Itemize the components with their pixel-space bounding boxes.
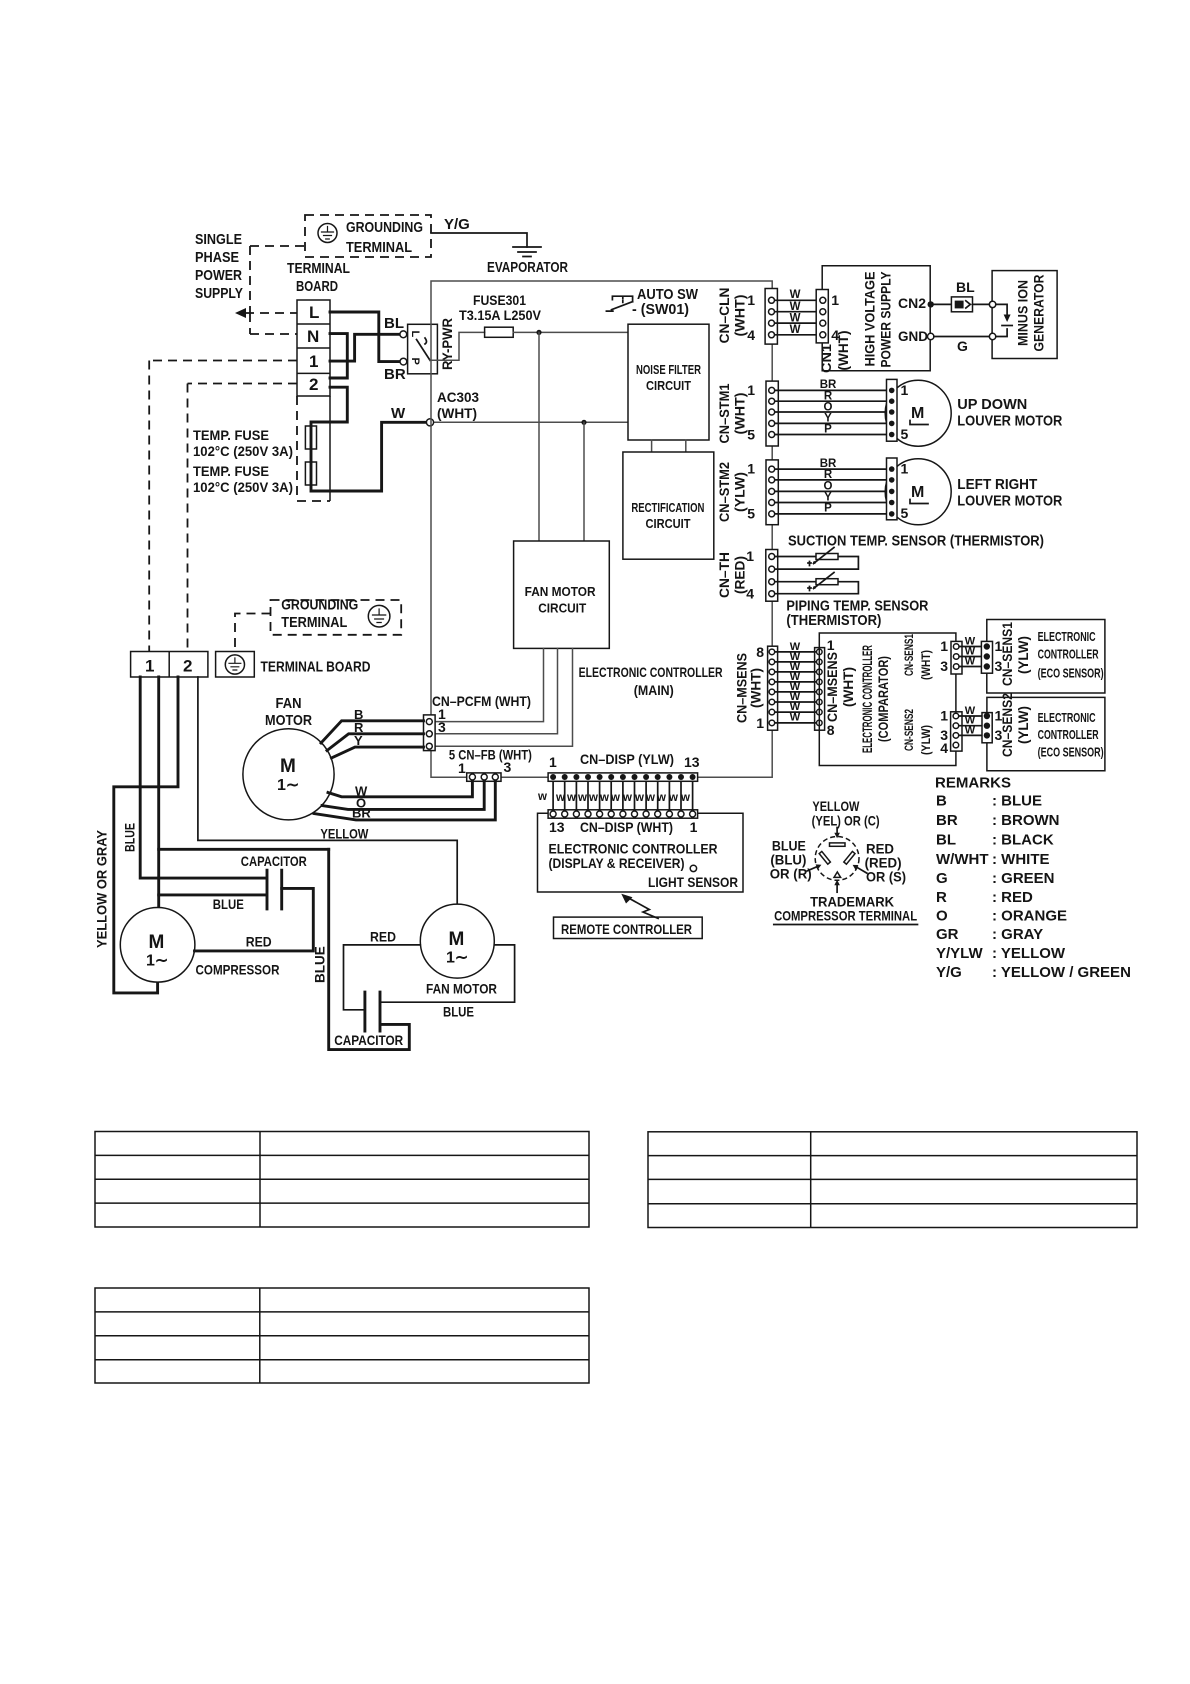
rectification circuit box	[623, 452, 714, 559]
svg-text:BLUE: BLUE	[313, 946, 328, 983]
svg-text:W: W	[391, 405, 406, 422]
svg-text:R: R	[936, 889, 947, 906]
svg-text:1: 1	[831, 292, 839, 308]
indoor fan motor	[243, 729, 334, 820]
wire W fan to CN-FB pin1	[328, 781, 472, 797]
svg-text:RECTIFICATION: RECTIFICATION	[631, 500, 704, 515]
svg-text:TEMP. FUSE: TEMP. FUSE	[193, 463, 269, 479]
svg-text:RED: RED	[246, 934, 272, 950]
svg-text:CN–PCFM (WHT): CN–PCFM (WHT)	[432, 693, 531, 709]
svg-text:GROUNDING: GROUNDING	[346, 219, 423, 236]
svg-text:1: 1	[747, 292, 755, 308]
svg-text:- (SW01): - (SW01)	[632, 301, 689, 318]
terminal R pin	[819, 851, 830, 864]
svg-text:GENERATOR: GENERATOR	[1032, 274, 1047, 351]
svg-text:CN–STM2: CN–STM2	[717, 462, 732, 522]
svg-text:w: w	[537, 791, 547, 803]
eco sensor controller box 1	[987, 620, 1105, 694]
svg-text:: WHITE: : WHITE	[992, 851, 1050, 868]
svg-text:MINUS ION: MINUS ION	[1016, 280, 1031, 346]
table 2	[648, 1132, 1137, 1228]
svg-text:w: w	[656, 792, 666, 804]
svg-text:w: w	[680, 792, 690, 804]
svg-text:(WHT): (WHT)	[841, 667, 856, 707]
svg-text:CN–MSENS: CN–MSENS	[825, 652, 840, 722]
wire 1b branch to outdoor fan blue	[159, 848, 329, 851]
svg-text:(WHT): (WHT)	[733, 295, 748, 337]
svg-text:OR (R): OR (R)	[770, 866, 812, 882]
svg-text:5: 5	[901, 426, 909, 442]
svg-text:5: 5	[747, 506, 755, 522]
dashed wire supply to grounding terminal	[250, 246, 305, 313]
wires fan motor circuit to CN-PCFM	[435, 648, 572, 746]
svg-text:: BLACK: : BLACK	[992, 832, 1054, 849]
wire 1 to relay BL	[330, 334, 400, 361]
CN-STM2 connector	[766, 460, 778, 525]
svg-text:1: 1	[690, 819, 698, 835]
svg-text:(WHT): (WHT)	[437, 405, 477, 421]
AC303 connector circle	[426, 419, 433, 426]
wire R fan to CN-PCFM pin2	[327, 734, 424, 751]
svg-text:L: L	[409, 331, 421, 338]
svg-text:BL: BL	[956, 279, 975, 295]
svg-text:CN–SENS1: CN–SENS1	[1000, 622, 1015, 686]
CN1 connector	[816, 290, 828, 343]
arrow blue to R	[807, 867, 816, 871]
svg-text:1: 1	[756, 715, 764, 731]
svg-text:3: 3	[438, 719, 446, 735]
svg-text:3: 3	[940, 658, 948, 674]
display & receiver controller box	[538, 813, 744, 892]
svg-text:(COMPARATOR): (COMPARATOR)	[876, 656, 891, 742]
svg-text:CN–DISP (WHT): CN–DISP (WHT)	[580, 819, 673, 835]
wires CN-DISP YLW to WHT	[553, 781, 693, 811]
svg-text:RY-PWR: RY-PWR	[439, 318, 455, 370]
wire 2b (YELLOW) to outdoor fan motor	[198, 677, 457, 905]
svg-text:: GREEN: : GREEN	[992, 870, 1055, 887]
svg-text:1: 1	[747, 382, 755, 398]
dashed wire grounding to terminal board earth	[235, 614, 271, 651]
capacitor (outdoor) plates	[365, 992, 380, 1031]
remote controller arrow	[625, 896, 658, 918]
wire N to 2 link	[330, 334, 347, 378]
svg-text:PHASE: PHASE	[195, 249, 239, 266]
earth terminal box (outdoor)	[216, 652, 255, 678]
svg-text:W: W	[790, 313, 801, 325]
svg-text:POWER: POWER	[195, 267, 242, 284]
svg-text:BOARD: BOARD	[296, 278, 338, 295]
svg-text:(YEL) OR (C): (YEL) OR (C)	[812, 813, 880, 829]
wire terminal 2 to temp fuses	[311, 387, 427, 491]
svg-text:CAPACITOR: CAPACITOR	[334, 1032, 403, 1048]
thermistor loop 2 wires	[772, 582, 859, 594]
wires CN-STM2 to left-right louver motor	[772, 469, 891, 514]
svg-text:: ORANGE: : ORANGE	[992, 908, 1067, 925]
wire outdoor fan right to capacitor	[382, 945, 515, 1002]
svg-text:NOISE FILTER: NOISE FILTER	[636, 362, 701, 377]
svg-text:LOUVER MOTOR: LOUVER MOTOR	[957, 413, 1062, 430]
minus ion generator box	[992, 271, 1057, 359]
svg-text:: YELLOW: : YELLOW	[992, 945, 1066, 962]
svg-text:4: 4	[940, 740, 948, 756]
svg-text:ELECTRONIC CONTROLLER: ELECTRONIC CONTROLLER	[579, 664, 723, 680]
svg-text:1∼: 1∼	[146, 953, 168, 970]
wire Y/G from grounding terminal to evaporator ground	[431, 233, 527, 247]
wires noise filter to rectification	[652, 440, 686, 452]
noise filter circuit box	[628, 324, 709, 440]
svg-text:TEMP. FUSE: TEMP. FUSE	[193, 427, 269, 443]
outdoor fan motor	[420, 904, 494, 978]
light sensor circle	[690, 865, 696, 871]
svg-text:CONTROLLER: CONTROLLER	[1038, 647, 1099, 662]
wire B fan to CN-PCFM pin1	[321, 721, 424, 743]
svg-text:CN-SENS2: CN-SENS2	[902, 709, 916, 751]
svg-text:w: w	[622, 792, 632, 804]
w labels CN-DISP wires	[537, 791, 690, 804]
svg-text:M: M	[149, 932, 165, 953]
arrow trademark	[836, 885, 838, 893]
svg-text:REMOTE CONTROLLER: REMOTE CONTROLLER	[561, 921, 692, 937]
svg-text:W: W	[790, 324, 801, 336]
junction dot fuse node	[536, 330, 541, 335]
relay RY-PWR	[408, 324, 438, 374]
svg-text:W/WHT: W/WHT	[936, 851, 988, 868]
svg-text:1: 1	[145, 657, 154, 676]
W labels CN-MSENS wires	[790, 641, 801, 724]
wires CN-CLN to CN1	[772, 300, 823, 335]
wire GND to minus ion generator	[934, 336, 990, 338]
svg-text:SUPPLY: SUPPLY	[195, 285, 243, 302]
svg-text:(WHT): (WHT)	[836, 331, 851, 371]
svg-text:Y/G: Y/G	[444, 216, 470, 233]
svg-text:CIRCUIT: CIRCUIT	[646, 378, 691, 393]
wire 1a (BLUE) to compressor capacitor	[140, 677, 265, 878]
svg-text:FAN: FAN	[276, 695, 302, 712]
earth symbol in circle (top grounding terminal)	[318, 224, 337, 243]
wire fuse node down to fan motor circuit	[538, 332, 540, 541]
svg-text:1: 1	[549, 754, 557, 770]
capacitor (compressor) plates	[267, 870, 282, 909]
svg-text:1: 1	[901, 461, 909, 477]
svg-text:M: M	[280, 756, 296, 777]
svg-text:G: G	[957, 338, 968, 354]
svg-text:TERMINAL BOARD: TERMINAL BOARD	[261, 659, 371, 676]
svg-text:2: 2	[183, 657, 192, 676]
svg-text:(YLW): (YLW)	[733, 472, 748, 512]
svg-text:M: M	[449, 929, 465, 950]
svg-text:CN-SENS1: CN-SENS1	[902, 634, 916, 676]
svg-text:(THERMISTOR): (THERMISTOR)	[786, 612, 881, 629]
svg-text:: RED: : RED	[992, 889, 1033, 906]
svg-text:REMARKS: REMARKS	[935, 775, 1011, 792]
thermistor TH2	[816, 579, 838, 585]
svg-text:ELECTRONIC: ELECTRONIC	[1038, 710, 1096, 725]
CN-SENS2 connector pair	[951, 712, 962, 751]
terminal board dashed extension	[297, 396, 330, 501]
svg-text:GND: GND	[898, 328, 928, 344]
svg-text:: BLUE: : BLUE	[992, 793, 1042, 810]
svg-text:1∼: 1∼	[446, 950, 468, 967]
svg-text:RED: RED	[370, 929, 396, 945]
svg-text:BLUE: BLUE	[123, 823, 138, 852]
table 3	[95, 1288, 589, 1383]
svg-text:SUCTION TEMP. SENSOR (THERMIST: SUCTION TEMP. SENSOR (THERMISTOR)	[788, 533, 1044, 550]
svg-text:M: M	[911, 484, 924, 501]
svg-text:Y/YLW: Y/YLW	[936, 945, 984, 962]
svg-text:: GRAY: : GRAY	[992, 926, 1043, 943]
up down louver motor	[885, 380, 951, 446]
electronic controller comparator box	[819, 633, 956, 766]
svg-text:LIGHT SENSOR: LIGHT SENSOR	[648, 874, 738, 890]
svg-text:CIRCUIT: CIRCUIT	[538, 601, 586, 616]
svg-text:(YLW): (YLW)	[919, 725, 933, 755]
svg-text:O: O	[936, 908, 948, 925]
svg-text:13: 13	[684, 754, 700, 770]
svg-text:1∼: 1∼	[277, 777, 299, 794]
svg-text:5: 5	[747, 427, 755, 443]
CN-CLN connector	[765, 289, 777, 345]
svg-text:M: M	[911, 405, 924, 422]
svg-text:102°C (250V 3A): 102°C (250V 3A)	[193, 479, 293, 495]
svg-text:W: W	[790, 712, 801, 724]
junction dot W node	[581, 420, 586, 425]
svg-text:(YLW): (YLW)	[1016, 706, 1031, 744]
svg-text:LEFT RIGHT: LEFT RIGHT	[957, 476, 1037, 493]
wire W node down to fan motor circuit	[583, 422, 585, 541]
svg-text:(ECO SENSOR): (ECO SENSOR)	[1038, 745, 1104, 760]
svg-text:POWER SUPPLY: POWER SUPPLY	[879, 272, 894, 368]
wires CN-MSENS	[772, 652, 819, 723]
svg-text:1: 1	[901, 382, 909, 398]
svg-text:CN2: CN2	[898, 295, 926, 311]
svg-text:SINGLE: SINGLE	[195, 231, 242, 248]
svg-text:w: w	[645, 792, 655, 804]
wire capacitor to compressor RED	[195, 888, 314, 951]
svg-text:CN–SENS2: CN–SENS2	[1000, 693, 1015, 757]
svg-text:FAN MOTOR: FAN MOTOR	[525, 584, 596, 599]
svg-text:1: 1	[827, 637, 835, 653]
BL inline connector	[951, 297, 972, 312]
wire O fan to CN-FB pin2	[322, 781, 484, 809]
svg-text:8: 8	[756, 644, 764, 660]
svg-text:FAN MOTOR: FAN MOTOR	[426, 981, 497, 997]
svg-text:102°C (250V 3A): 102°C (250V 3A)	[193, 443, 293, 459]
temp fuse F1	[305, 426, 316, 449]
compressor motor	[120, 908, 195, 983]
left right louver motor	[885, 459, 951, 525]
svg-text:Y: Y	[354, 733, 363, 748]
wire 2a (YELLOW OR GRAY) to compressor common	[114, 677, 178, 993]
svg-text:BLUE: BLUE	[443, 1004, 474, 1020]
svg-text:CN–TH: CN–TH	[717, 552, 732, 598]
discharge electrode symbol	[996, 304, 1007, 336]
terminal board (outdoor)	[131, 652, 208, 678]
svg-text:BR: BR	[384, 366, 406, 383]
wires CN-STM1 to up-down louver motor	[772, 390, 891, 434]
svg-text:(WHT): (WHT)	[919, 650, 933, 680]
svg-text:GR: GR	[936, 926, 959, 943]
CN-SENS1 connector pair	[951, 641, 962, 674]
svg-text:CN–CLN: CN–CLN	[717, 288, 732, 344]
svg-text:w: w	[634, 792, 644, 804]
svg-text:Y/G: Y/G	[936, 964, 962, 981]
svg-text:P: P	[824, 424, 832, 436]
dashed wire supply to L	[245, 312, 297, 314]
wire relay to fuse301	[430, 332, 485, 360]
svg-text:CAPACITOR: CAPACITOR	[241, 853, 307, 869]
wire outdoor fan left to capacitor	[344, 945, 421, 1010]
supply entry arrow	[235, 308, 246, 318]
dashed wire terminal 2 to outdoor	[188, 384, 298, 652]
svg-text:BR: BR	[820, 379, 837, 391]
svg-text:W: W	[790, 289, 801, 301]
svg-text:1: 1	[940, 708, 948, 724]
svg-text:UP DOWN: UP DOWN	[957, 396, 1027, 413]
svg-text:w: w	[610, 792, 620, 804]
svg-text:3: 3	[504, 759, 512, 775]
svg-text:w: w	[566, 792, 576, 804]
svg-text:(DISPLAY & RECEIVER): (DISPLAY & RECEIVER)	[549, 855, 685, 871]
svg-text:TERMINAL: TERMINAL	[287, 260, 350, 277]
terminal board (indoor)	[297, 300, 330, 396]
W line AC303	[434, 421, 629, 423]
wire CN2 to BL connector	[931, 303, 952, 305]
svg-text:1: 1	[747, 461, 755, 477]
high voltage power supply box	[822, 266, 930, 371]
fan motor circuit box	[514, 541, 610, 648]
arrow yellow to C	[836, 828, 838, 834]
CN-STM1 connector	[766, 381, 778, 446]
svg-text:CONTROLLER: CONTROLLER	[1038, 727, 1099, 742]
wire Y fan to CN-PCFM pin3	[332, 747, 424, 758]
svg-text:1: 1	[309, 352, 318, 371]
W labels CN-CLN wires	[790, 289, 801, 336]
CN-TH connector	[766, 550, 778, 602]
wire color labels BR R O Y P	[820, 379, 837, 436]
svg-text:CN1: CN1	[819, 343, 834, 373]
svg-text:8: 8	[827, 722, 835, 738]
svg-text:EVAPORATOR: EVAPORATOR	[487, 259, 568, 276]
dashed wire supply to N	[250, 313, 297, 334]
terminal S pin	[844, 851, 855, 864]
terminal C bar	[830, 843, 846, 846]
wire BR fan to CN-FB pin3	[314, 781, 495, 820]
svg-text:4: 4	[747, 327, 755, 343]
svg-text:BR: BR	[352, 806, 371, 821]
earth symbol in circle (outdoor grounding)	[368, 605, 390, 627]
svg-text:TERMINAL: TERMINAL	[281, 614, 347, 631]
electronic controller main outline	[431, 281, 772, 777]
svg-text:COMPRESSOR TERMINAL: COMPRESSOR TERMINAL	[774, 908, 917, 924]
grounding terminal box (top)	[305, 215, 431, 257]
CN-DISP (YLW) connector	[548, 773, 698, 781]
svg-text:COMPRESSOR: COMPRESSOR	[196, 962, 280, 978]
wire L to relay BR	[330, 312, 400, 362]
svg-text:1: 1	[940, 638, 948, 654]
CN-FB connector	[467, 773, 501, 781]
svg-text:FUSE301: FUSE301	[473, 292, 526, 308]
trademark triangle	[834, 872, 841, 877]
svg-text:TERMINAL: TERMINAL	[346, 239, 412, 256]
svg-text:ELECTRONIC: ELECTRONIC	[1038, 629, 1096, 644]
eco sensor controller box 2	[987, 697, 1105, 770]
svg-text:L: L	[309, 303, 319, 322]
svg-text:N: N	[307, 327, 319, 346]
svg-text:BL: BL	[936, 832, 956, 849]
svg-text:R: R	[824, 469, 833, 481]
svg-text:(RED): (RED)	[733, 556, 748, 594]
svg-text:CIRCUIT: CIRCUIT	[646, 516, 691, 531]
svg-text:w: w	[668, 792, 678, 804]
svg-text:(MAIN): (MAIN)	[634, 682, 674, 698]
svg-text:W: W	[790, 301, 801, 313]
thermistor TH1	[816, 554, 838, 560]
svg-text:T3.15A L250V: T3.15A L250V	[459, 307, 542, 323]
svg-text:1: 1	[458, 760, 466, 776]
arrow red to S	[857, 868, 867, 874]
svg-text:w: w	[577, 792, 587, 804]
svg-text:W: W	[965, 724, 976, 736]
wire fuse301 to noise filter	[513, 331, 628, 333]
svg-text:ELECTRONIC CONTROLLER: ELECTRONIC CONTROLLER	[860, 645, 875, 753]
svg-text:CN–STM1: CN–STM1	[717, 383, 732, 443]
svg-text:LOUVER MOTOR: LOUVER MOTOR	[957, 493, 1062, 510]
svg-text:(WHT): (WHT)	[733, 393, 748, 435]
svg-text:CN–DISP (YLW): CN–DISP (YLW)	[580, 751, 674, 767]
ground symbol (evaporator)	[513, 247, 541, 257]
svg-text:2: 2	[309, 375, 318, 394]
wire blue to outdoor capacitor	[329, 849, 410, 1049]
svg-text:W: W	[965, 656, 976, 668]
CN-DISP (WHT) connector	[548, 810, 698, 818]
svg-text:: YELLOW / GREEN: : YELLOW / GREEN	[992, 964, 1131, 981]
compressor terminal circle	[815, 837, 859, 881]
wire BL to minus ion generator	[973, 303, 990, 305]
svg-text:13: 13	[549, 819, 565, 835]
table 1	[95, 1132, 589, 1228]
wire 1b to compressor and capacitor	[157, 677, 160, 908]
svg-text:BLUE: BLUE	[213, 896, 244, 912]
temp fuse F2	[305, 462, 316, 485]
svg-text:GROUNDING: GROUNDING	[281, 597, 358, 614]
svg-text:w: w	[555, 792, 565, 804]
svg-text:MOTOR: MOTOR	[265, 712, 312, 729]
thermistor loop 1 wires	[772, 557, 859, 570]
remote controller box	[554, 917, 703, 938]
svg-text:HIGH VOLTAGE: HIGH VOLTAGE	[863, 272, 878, 367]
svg-text:5: 5	[901, 505, 909, 521]
svg-text:OR (S): OR (S)	[866, 869, 906, 885]
svg-text:BL: BL	[384, 315, 404, 332]
CN-PCFM connector	[424, 715, 436, 751]
svg-text:(ECO SENSOR): (ECO SENSOR)	[1038, 666, 1104, 681]
svg-text:P: P	[824, 503, 832, 515]
svg-text:: BROWN: : BROWN	[992, 812, 1060, 829]
svg-text:AC303: AC303	[437, 389, 479, 405]
svg-text:G: G	[936, 870, 948, 887]
dashed wire terminal 1 to outdoor	[149, 361, 297, 652]
svg-text:w: w	[599, 792, 609, 804]
svg-text:BR: BR	[936, 812, 958, 829]
svg-text:P: P	[409, 358, 421, 365]
svg-text:(WHT): (WHT)	[749, 668, 764, 708]
svg-text:(YLW): (YLW)	[1016, 636, 1031, 674]
svg-text:YELLOW OR GRAY: YELLOW OR GRAY	[95, 830, 110, 948]
AUTO SW symbol	[606, 296, 632, 311]
svg-text:w: w	[588, 792, 598, 804]
svg-text:YELLOW: YELLOW	[320, 826, 369, 842]
CN-MSENS connector pair	[768, 646, 778, 730]
